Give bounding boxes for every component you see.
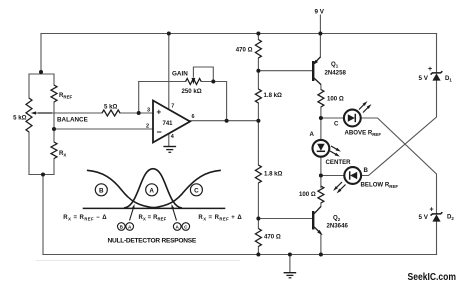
wire right rail through D1 — [436, 34, 438, 73]
svg-text:100 Ω: 100 Ω — [299, 191, 316, 198]
node feedback on output — [225, 119, 229, 123]
zener diode D1 5V — [431, 71, 443, 80]
wire top supply rail — [41, 33, 437, 35]
svg-text:GAIN: GAIN — [172, 71, 188, 78]
node column bottom rail — [256, 253, 260, 257]
transistor Q1 2N4258 pnp — [313, 57, 321, 85]
svg-text:+: + — [428, 66, 432, 73]
resistor 470 ohm upper — [255, 40, 261, 59]
wire gain pot wiper loop — [193, 67, 213, 82]
svg-text:741: 741 — [163, 121, 174, 127]
node Q1 base junction — [256, 69, 260, 73]
wire left drop to bridge — [40, 34, 42, 73]
svg-text:5 kΩ: 5 kΩ — [104, 104, 117, 111]
wire Q1 base — [258, 70, 312, 72]
node 9V on rail — [318, 32, 322, 36]
resistor Rx — [51, 142, 57, 159]
graph crossover arrow right — [173, 209, 177, 221]
svg-text:B: B — [364, 167, 369, 174]
svg-text:C: C — [194, 187, 199, 194]
svg-text:B: B — [99, 187, 104, 194]
resistor 100 ohm lower — [318, 186, 324, 203]
node mid column on rail — [256, 32, 260, 36]
wire Q1 collector to 100ohm — [320, 85, 322, 90]
wire pot branch segments — [28, 74, 30, 175]
svg-text:C: C — [334, 121, 339, 128]
wire CENTER led to node B junction — [320, 157, 322, 188]
resistor 1.8k upper — [255, 89, 261, 103]
wire ground tap stub — [289, 255, 291, 273]
node bridge bottom — [41, 173, 45, 177]
graph curve C rising — [152, 170, 221, 208]
wire op-amp pin 7 to supply rail — [168, 34, 170, 109]
svg-text:SeekIC.com: SeekIC.com — [408, 272, 457, 283]
wire bridge loop top — [29, 73, 54, 75]
wire 100ohm to node C — [320, 107, 322, 118]
graph baseline — [83, 207, 226, 209]
node Q2 emitter rail — [319, 253, 323, 257]
wire Q2 emitter to ground rail — [320, 234, 322, 255]
graph small circled A left — [126, 223, 134, 231]
wire middle column segments — [257, 34, 259, 255]
LED center (A output) — [313, 140, 330, 157]
wire pot wiper to 5k resistor — [34, 112, 102, 114]
wire node junction to BELOW led — [323, 175, 345, 177]
op-amp U1 741 — [146, 101, 195, 143]
wire op-amp pin 4 to ground symbol — [168, 134, 170, 147]
svg-text:250 kΩ: 250 kΩ — [182, 88, 202, 95]
svg-text:3: 3 — [147, 108, 150, 114]
svg-text:RX = RREF + Δ: RX = RREF + Δ — [198, 215, 242, 221]
graph small circled B — [118, 223, 126, 231]
svg-text:A: A — [310, 131, 315, 138]
graph curve A bell — [124, 169, 182, 208]
wire 100ohm2 to Q2 collector — [320, 203, 322, 207]
pot wiper arrow gain — [192, 78, 196, 85]
resistor 1.8k lower — [255, 165, 261, 183]
graph crossover arrow left — [130, 209, 134, 221]
svg-text:5 V: 5 V — [419, 214, 429, 221]
wire op-amp output to middle column — [190, 120, 258, 122]
svg-text:RX = RREF: RX = RREF — [139, 215, 167, 221]
node balance input junction — [137, 111, 141, 115]
svg-text:NULL-DETECTOR RESPONSE: NULL-DETECTOR RESPONSE — [108, 237, 197, 244]
wire D2 to bottom rail — [436, 222, 438, 255]
resistor Rref — [51, 85, 57, 102]
svg-text:BALANCE: BALANCE — [57, 117, 88, 124]
svg-text:2N3646: 2N3646 — [327, 222, 349, 229]
svg-text:2N4258: 2N4258 — [325, 70, 347, 77]
LED below Rref (B output) — [344, 167, 361, 184]
node C junction — [319, 116, 323, 120]
scan artifact line — [36, 260, 240, 262]
svg-text:1.8 kΩ: 1.8 kΩ — [264, 92, 283, 99]
node gain pot right — [211, 80, 215, 84]
svg-text:470 Ω: 470 Ω — [264, 234, 281, 241]
graph curve B falling — [87, 170, 155, 208]
svg-text:+: + — [430, 207, 434, 214]
wire feedback right of gain pot down to output — [201, 82, 226, 121]
ground op-amp pin4 — [163, 147, 176, 153]
wire Rx junction to op-amp pin 2 — [54, 128, 153, 130]
svg-text:9 V: 9 V — [315, 9, 325, 16]
svg-text:100 Ω: 100 Ω — [327, 96, 344, 103]
graph circled B — [95, 184, 107, 196]
graph circled A — [146, 184, 158, 196]
ground bottom rail — [284, 273, 297, 278]
node below-led junction — [319, 174, 323, 178]
wire Q2 base — [258, 218, 312, 220]
node output to column — [256, 119, 260, 123]
wire bridge bottom to ground rail — [42, 175, 44, 255]
wire Rref/Rx branch segments — [53, 74, 55, 175]
wire bottom ground rail — [43, 254, 437, 256]
svg-text:470 Ω: 470 Ω — [236, 47, 253, 54]
zener diode D2 5V — [431, 212, 443, 221]
wire D1 to diagonal — [361, 81, 436, 176]
resistor 100 ohm upper — [318, 90, 324, 108]
transistor Q2 2N3646 npn — [313, 207, 321, 234]
svg-text:A: A — [149, 187, 154, 194]
wire 5k resistor to op-amp pin 3 — [120, 112, 153, 114]
LED above Rref (C output) — [344, 110, 361, 127]
node pin7 on rail — [167, 32, 171, 36]
svg-text:CENTER: CENTER — [326, 159, 352, 166]
graph small circled C — [182, 223, 190, 231]
svg-text:6: 6 — [192, 114, 195, 120]
node Q2 base junction — [256, 217, 260, 221]
svg-text:5 V: 5 V — [419, 75, 429, 82]
wire feedback vertical to pin3 node — [138, 82, 140, 114]
node Rx to pin2 junction — [52, 127, 56, 131]
node ground tap — [288, 253, 292, 257]
svg-text:7: 7 — [171, 104, 174, 110]
pot wiper arrow balance — [38, 112, 52, 114]
wire ABOVE led right + diagonal to D2 — [361, 118, 437, 213]
graph circled C — [190, 184, 202, 196]
graph small circled A right — [173, 223, 181, 231]
svg-text:+: + — [157, 108, 162, 117]
svg-text:5 kΩ: 5 kΩ — [13, 115, 26, 122]
wire node C to ABOVE led — [321, 117, 344, 119]
svg-text:RX = RREF − Δ: RX = RREF − Δ — [63, 215, 107, 221]
svg-text:−: − — [157, 127, 162, 137]
wire bridge loop bottom — [29, 174, 54, 176]
resistor 5k ohm input — [102, 110, 120, 116]
wire node C down to CENTER led — [320, 118, 322, 140]
node bridge top — [39, 70, 43, 74]
svg-text:2: 2 — [146, 124, 149, 130]
wire 9V supply drop — [319, 15, 321, 57]
potentiometer 5k ohm balance — [26, 98, 32, 132]
svg-text:1.8 kΩ: 1.8 kΩ — [264, 171, 283, 178]
potentiometer 250k gain — [186, 79, 202, 85]
resistor 470 ohm lower — [255, 229, 261, 247]
wire feedback horizontal left of gain pot — [139, 81, 186, 83]
